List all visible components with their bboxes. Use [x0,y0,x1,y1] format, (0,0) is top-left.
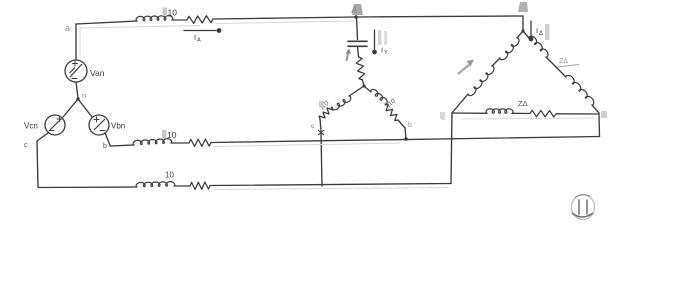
wire resistor to node A [213,17,356,19]
inductor y-load right leg [370,88,389,105]
wire c node down [37,141,38,188]
current arrow I-delta [529,21,550,41]
svg-text:A: A [351,5,358,16]
wire ghost top-left [80,26,200,59]
svg-text:10: 10 [168,8,178,18]
inductor delta-right upper [529,35,550,58]
resistor line-a [187,15,213,23]
wire b node to coil (line b) [110,145,134,146]
wire coil to resistor (line c) [174,185,190,187]
wire delta right vertex down to line b [598,114,601,137]
wire left leg to node c1 [320,119,321,131]
wire delta bottom left stub [452,112,487,114]
wire n to Vbn [78,99,92,117]
wire Vbn to node b [105,133,110,145]
wire delta left upper [517,31,523,38]
node a (gray label) [65,23,70,33]
label 10 (line a) [163,8,178,18]
node Y-center [362,84,365,87]
node A gray label [351,4,363,16]
pencil arrow on delta left side [458,60,474,75]
svg-text:I: I [381,46,383,55]
wire ghost line-b [214,143,400,147]
wire delta bottom mid [512,112,530,114]
delta apex node [518,2,528,33]
wire Vcn to node c [37,133,48,141]
delta left vertex smudge [440,112,445,122]
wire right leg to line b [398,120,406,139]
svg-text:I: I [194,33,196,42]
node c1 scribble [311,123,324,135]
wire capacitor to resistor [358,46,359,57]
source Vcn [45,115,65,135]
label j10 (y left leg) [318,100,330,112]
wire node A to delta top [356,16,523,17]
svg-text:a: a [65,23,70,33]
svg-text:n: n [82,91,86,100]
wire Y center to right coil [364,86,371,92]
svg-text:A: A [197,38,201,44]
label Vcn [24,122,38,131]
wire delta left to vertex [452,94,468,113]
node b label [103,143,107,150]
svg-text:10: 10 [167,130,177,140]
wire Y center to left coil [349,86,364,96]
resistor delta-bottom [530,110,556,117]
wire line c left [38,186,137,189]
svg-text:ZΔ: ZΔ [518,99,528,108]
label 10 (line c) [165,171,174,180]
inductor line-a [136,15,173,21]
inductor delta-bottom [486,109,513,114]
source Van [65,60,87,82]
svg-text:Δ: Δ [539,31,543,37]
wire a corner to coil [76,21,137,24]
inductor delta-left lower [468,66,496,98]
svg-text:I: I [536,26,538,35]
wire line b to delta [211,137,600,143]
resistor line-b [189,139,211,147]
label 10 (line b) [162,130,177,140]
wire line c to delta [210,184,451,186]
wire coil to resistor (line a) [172,19,187,21]
resistor line-c [190,182,210,190]
label Vbn [111,122,125,131]
wire node c1 down to line c [321,133,322,186]
svg-text:ZΔ: ZΔ [559,58,568,65]
wire delta left middle [492,58,500,66]
capacitor C (y-load phase a) [348,41,367,46]
node n [76,91,86,101]
label Z-delta (right side, pencil) [557,58,579,67]
source Vbn [89,115,109,135]
resistor y-load right leg [383,103,400,122]
inductor line-c [136,181,175,187]
wire ghost line-c [215,188,448,190]
resistor y-load left leg [318,105,334,121]
svg-text:b: b [408,122,412,129]
wire n to Vcn [63,99,78,117]
wire delta top stub [522,16,524,31]
wire Van to top corner [75,24,77,60]
delta right vertex smudge [601,111,607,118]
wire node A down to capacitor [357,17,358,40]
resistor y-load phase a (vertical) [355,56,366,80]
node c label [24,142,28,149]
wire resistor to Y center [363,80,365,86]
svg-text:Van: Van [90,68,105,78]
svg-text:10: 10 [165,171,174,180]
wire delta right middle [546,57,566,77]
wire delta right upper [523,31,529,38]
current arrow IA [184,28,221,43]
label Van [90,68,105,78]
wire delta left vertex down to line c [451,113,452,184]
inductor delta-right lower [566,74,596,106]
inductor delta-left upper [500,38,521,62]
wire delta bottom right stub [556,113,599,115]
wire ghost top-right [216,21,354,24]
current arrow IY [372,30,388,56]
svg-text:Vcn: Vcn [24,122,38,131]
node A junction [354,15,358,19]
wire ghost delta-bottom [462,118,595,119]
inductor line-b [133,138,172,145]
label j10 (y right leg) [385,97,397,109]
label Z-delta (bottom) [518,99,528,108]
wire delta right to vertex [592,105,599,113]
svg-text:b: b [103,143,107,150]
svg-text:Y: Y [384,50,388,56]
wire Van to node n [76,82,78,98]
wire coil to resistor (line b) [171,142,189,144]
badge (II) [572,195,595,220]
svg-text:c: c [24,142,28,149]
node B junction [404,122,412,141]
inductor y-load left leg [331,95,352,111]
pencil arrow left of capacitor [346,49,352,62]
svg-text:Vbn: Vbn [111,122,125,131]
